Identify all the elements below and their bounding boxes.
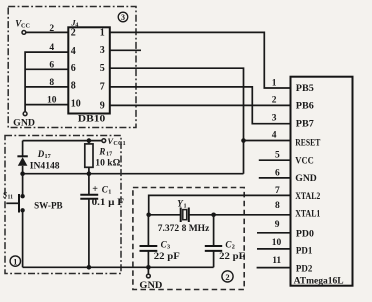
crystal Y1	[149, 208, 214, 223]
dashed box 3 (ISP connector section)	[8, 7, 136, 128]
svg-text:1: 1	[184, 202, 187, 209]
junction C1 bottom	[87, 265, 92, 270]
wire Vcc to J4 pin2	[26, 31, 68, 33]
capacitor C3	[140, 215, 158, 267]
svg-text:0.1 µ F: 0.1 µ F	[92, 197, 125, 207]
svg-text:10: 10	[272, 238, 282, 248]
svg-text:VCC: VCC	[295, 156, 314, 167]
connector J4 body	[68, 27, 110, 113]
svg-text:10 kΩ: 10 kΩ	[95, 157, 120, 167]
junction diode / reset rail	[20, 171, 25, 176]
junction R17 top	[87, 138, 92, 143]
pin 10 number and stub	[257, 238, 291, 249]
junction crystal left node	[146, 213, 151, 218]
svg-text:XTAL2: XTAL2	[295, 191, 320, 202]
svg-text:DB10: DB10	[78, 115, 106, 125]
resistor R17	[85, 141, 93, 174]
junction RESET node	[241, 138, 246, 143]
label Y1	[177, 198, 186, 209]
connector designator J4	[70, 17, 78, 28]
svg-text:2: 2	[272, 95, 277, 105]
wire RESET junction to MCU pin4	[244, 140, 291, 142]
label circle 2	[222, 271, 233, 282]
capacitor C1	[80, 174, 98, 268]
wire XTAL2 to crystal left	[149, 195, 291, 214]
bottom ground wire	[23, 266, 214, 268]
junction crystal ground	[146, 265, 151, 270]
wire pin8	[25, 86, 68, 88]
wire Vcc1 top rail	[23, 140, 102, 142]
switch S11 SW-PB	[6, 174, 25, 268]
svg-text:PB6: PB6	[296, 100, 314, 111]
wire pin6	[25, 68, 68, 70]
svg-text:11: 11	[8, 195, 14, 201]
junction crystal right node	[211, 213, 216, 218]
svg-text:22 pF: 22 pF	[154, 251, 181, 261]
svg-text:3: 3	[272, 114, 277, 124]
wire J4 pin5 to RESET net	[110, 68, 244, 174]
dashed box 2 (crystal circuit)	[133, 188, 244, 290]
svg-text:3: 3	[121, 13, 125, 22]
svg-text:6: 6	[71, 63, 76, 74]
svg-text:11: 11	[272, 256, 281, 266]
wire J4 pin3 stub	[110, 49, 141, 51]
svg-text:PB7: PB7	[296, 119, 314, 130]
wire diode branch upper	[22, 141, 24, 157]
svg-text:IN4148: IN4148	[30, 160, 60, 170]
svg-text:1: 1	[100, 27, 105, 38]
svg-text:9: 9	[100, 100, 105, 111]
GND terminal of crystal circuit	[139, 267, 163, 290]
svg-text:7: 7	[100, 82, 105, 93]
svg-text:PD2: PD2	[296, 264, 313, 275]
pin 11 number and stub	[257, 256, 291, 268]
svg-text:CC: CC	[21, 23, 30, 30]
svg-text:+: +	[92, 184, 98, 195]
Vcc1 terminal	[102, 136, 126, 147]
svg-text:6: 6	[275, 168, 280, 178]
svg-text:R: R	[98, 146, 105, 156]
svg-text:1: 1	[108, 189, 111, 196]
svg-text:9: 9	[275, 220, 280, 230]
svg-text:5: 5	[100, 63, 105, 74]
svg-text:8: 8	[275, 201, 280, 211]
svg-text:ATmega16L: ATmega16L	[294, 276, 344, 286]
svg-text:10: 10	[47, 96, 57, 106]
svg-text:D: D	[37, 149, 45, 159]
GND terminal of box 3	[13, 112, 35, 128]
svg-text:PD1: PD1	[296, 246, 313, 257]
label circle 3	[118, 12, 128, 22]
MCU U1 ATmega16L body	[291, 77, 353, 286]
svg-text:RESET: RESET	[295, 138, 320, 149]
svg-text:8: 8	[71, 81, 76, 92]
capacitor C2	[205, 215, 222, 267]
svg-text:3: 3	[167, 243, 170, 250]
svg-text:GND: GND	[295, 173, 317, 184]
GND bus wire	[25, 52, 68, 112]
svg-text:7: 7	[275, 186, 280, 196]
svg-text:6: 6	[49, 60, 54, 70]
svg-text:7.372 8 MHz: 7.372 8 MHz	[158, 224, 210, 234]
label C2	[225, 239, 234, 250]
label circle 1	[10, 256, 20, 267]
wire XTAL1 to crystal right	[214, 214, 291, 216]
pin 9 number and stub	[257, 220, 291, 233]
diode D17 IN4148	[17, 156, 27, 173]
svg-text:SW-PB: SW-PB	[34, 201, 63, 211]
svg-text:4: 4	[272, 131, 277, 141]
svg-text:10: 10	[71, 98, 81, 109]
svg-text:1: 1	[13, 258, 17, 267]
wire J4 pin1 to PB5	[110, 32, 291, 88]
label + C1	[92, 184, 111, 196]
pin 6 number and stub	[259, 168, 291, 178]
label C3	[161, 239, 170, 250]
svg-text:4: 4	[71, 46, 76, 57]
svg-text:CC1: CC1	[113, 141, 126, 147]
svg-text:2: 2	[232, 243, 235, 250]
svg-text:XTAL1: XTAL1	[295, 209, 320, 220]
svg-text:1: 1	[272, 78, 277, 88]
wire J4 pin7 to PB7	[110, 87, 291, 124]
svg-text:22 pF: 22 pF	[219, 251, 246, 261]
wire pin10	[25, 104, 68, 106]
svg-text:8: 8	[49, 78, 54, 88]
svg-text:4: 4	[49, 43, 54, 53]
svg-text:5: 5	[275, 151, 280, 161]
svg-text:GND: GND	[13, 117, 35, 127]
svg-text:17: 17	[45, 153, 51, 160]
svg-text:3: 3	[100, 45, 105, 56]
wire J4 pin9 to PB6	[110, 104, 291, 106]
svg-text:GND: GND	[139, 280, 163, 290]
label S11	[3, 191, 13, 201]
pin 5 number and stub	[259, 151, 291, 161]
Vcc terminal	[15, 19, 30, 35]
label D17	[37, 149, 51, 160]
svg-text:2: 2	[49, 24, 54, 34]
svg-text:PD0: PD0	[296, 229, 314, 240]
junction R17 bottom	[87, 171, 92, 176]
label R17	[98, 146, 112, 157]
dashed box 1 (reset circuit)	[5, 136, 121, 274]
wire reset net horizontal	[23, 173, 244, 175]
svg-text:2: 2	[71, 27, 76, 38]
svg-text:2: 2	[225, 272, 229, 282]
svg-text:PB5: PB5	[296, 83, 314, 94]
